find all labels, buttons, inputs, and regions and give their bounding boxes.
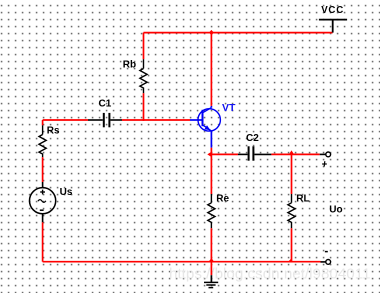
wire Re branch lower — [210, 228, 212, 262]
node: RL bottom junction — [288, 258, 292, 262]
resistor Re — [208, 194, 215, 228]
resistor RL — [288, 194, 295, 228]
capacitor C2 — [238, 146, 271, 160]
wire base rail right (C1 to transistor base) — [122, 119, 190, 121]
wire top rail (Rb top to VCC) — [144, 32, 333, 34]
wire C2 to RL junction — [271, 153, 291, 155]
node: collector junction on top rail — [209, 30, 214, 35]
svg-text:Uo: Uo — [329, 205, 342, 216]
resistor Rb — [140, 59, 147, 93]
wire Rb upper segment — [143, 33, 145, 60]
svg-text:VT: VT — [222, 102, 236, 114]
svg-text:Us: Us — [60, 187, 73, 198]
node: RL top junction — [289, 150, 295, 155]
wire Rb lower segment — [143, 93, 145, 121]
wire base rail left (Rs corner to C1) — [43, 119, 88, 121]
wire emitter junction to C2 — [211, 153, 238, 155]
resistor Rs — [39, 125, 46, 157]
svg-text:Re: Re — [216, 194, 229, 205]
wire bottom rail — [43, 261, 321, 263]
source Us (AC source) — [29, 182, 55, 222]
svg-text:RL: RL — [296, 193, 309, 204]
svg-text:https://blog.csdn.net/l9804011: https://blog.csdn.net/l9804011 — [169, 266, 371, 283]
svg-text:C1: C1 — [99, 99, 112, 110]
ground — [210, 262, 212, 276]
node: ground junction — [208, 258, 214, 262]
svg-text:Rb: Rb — [123, 60, 136, 71]
transistor VT (NPN) — [190, 106, 220, 148]
svg-text:Rs: Rs — [47, 126, 60, 137]
wire junction to output terminal — [292, 153, 320, 155]
terminal + output — [326, 152, 331, 157]
wire Rs corner down — [42, 120, 44, 125]
VCC power symbol — [319, 20, 347, 33]
label - — [325, 251, 328, 253]
svg-text:VCC: VCC — [321, 5, 343, 16]
wire collector (top rail to transistor) — [210, 33, 212, 106]
wire RL branch upper — [291, 154, 293, 194]
wire emitter down to Re — [210, 148, 212, 194]
wire Us to bottom rail — [42, 222, 44, 261]
capacitor C1 — [88, 113, 122, 127]
wire Rs to Us — [42, 157, 44, 182]
wire RL branch lower — [291, 228, 293, 262]
label + — [322, 161, 327, 166]
terminal - output — [326, 260, 331, 265]
node: emitter junction — [207, 151, 212, 157]
svg-text:C2: C2 — [246, 133, 259, 144]
